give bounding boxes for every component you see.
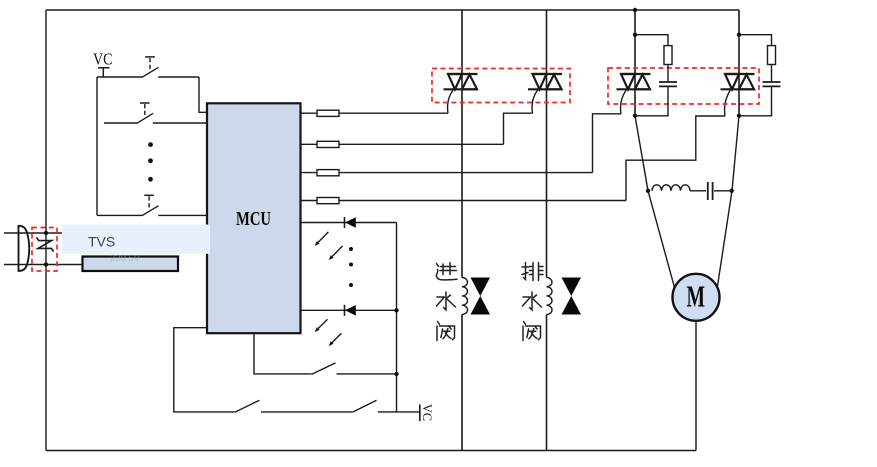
triac Q1 [444, 74, 478, 89]
wire: triac Q1 main line upper [461, 10, 463, 278]
wire: Q4 slant to motor [718, 116, 740, 286]
wire: S1 to MCU step [199, 77, 207, 112]
wire: MCU bottom to S4 [254, 333, 312, 374]
wire: Q3 slant to motor [635, 116, 675, 288]
arrow: matrix arrow 3 [315, 319, 328, 332]
valve symbol V2 (drain) [562, 278, 582, 315]
wire: key rail vertical [96, 77, 98, 215]
inductor L1 (inlet valve coil) [462, 278, 468, 315]
switch S1 (key 1, push-button) [97, 57, 199, 77]
power module U2 (220V-5V) [83, 257, 179, 272]
diode D3 row [301, 305, 397, 316]
wire: Q2 gate [532, 90, 538, 114]
wire: left border [45, 10, 47, 451]
snubber capacitor C2 [739, 82, 781, 116]
wire: valve 2 line lower [546, 315, 548, 451]
node: TVS bottom junction [44, 262, 48, 266]
node: S4 bus junction [394, 372, 398, 376]
highlight box: TVS (red dashed) [32, 228, 57, 272]
diode D2 row [301, 217, 397, 228]
MCU U1 [207, 103, 301, 333]
wire: triac Q2 main line upper [546, 10, 548, 278]
switch S6 [352, 400, 419, 412]
label: 排水阀 [522, 263, 543, 281]
wire: Q1 gate [448, 90, 454, 114]
highlight box: triacs Q3 Q4 (red dashed) [608, 68, 759, 104]
label banner: TVS [62, 225, 210, 254]
triac Q2 [528, 74, 562, 89]
label: 进水阀 [436, 263, 457, 280]
wire: R4 staircase to Q4 gate [626, 116, 725, 201]
valve symbol V1 (inlet) [471, 278, 491, 315]
switch S2 (key 2, push-button) [104, 103, 207, 123]
triac Q3 [617, 74, 651, 89]
arrow: matrix arrow 4 [329, 333, 342, 346]
wire: bottom return rail [46, 450, 696, 452]
wire: C3 to right slant [714, 190, 732, 192]
wire: top AC rail [46, 9, 739, 11]
arrow: matrix arrow 2 [329, 246, 343, 260]
resistor R2 [301, 141, 504, 147]
wire: triac Q4 branch line [738, 10, 740, 116]
node: phase right junction [730, 189, 734, 193]
node: matrix ellipsis dots [349, 247, 353, 287]
node: key ellipsis dots [148, 142, 153, 182]
switch S5 [235, 400, 352, 412]
switch S4 [312, 363, 397, 374]
switch S3 (key n, push-button) [97, 195, 207, 215]
wire: L3 to C3 [690, 190, 706, 192]
node: TVS top junction [44, 231, 48, 235]
node: Q3 snubber bottom [633, 114, 637, 118]
TVS diode D1 [37, 237, 54, 251]
resistor R3 [301, 170, 593, 176]
svg-text:MCU: MCU [236, 208, 271, 230]
wire: plug prong top [4, 232, 62, 234]
triac Q4 [721, 74, 755, 89]
node: Q4 snubber top [737, 33, 741, 37]
snubber resistor R5 [635, 35, 672, 82]
inductor L2 (drain valve coil) [547, 278, 553, 315]
node: Q3 snubber top [633, 33, 637, 37]
node: Q3 top rail junction [633, 8, 637, 12]
node: phase left junction [646, 189, 650, 193]
wire: plug prong bottom [4, 264, 83, 266]
wire: MCU left to bottom row [174, 328, 235, 412]
resistor R4 [301, 198, 627, 204]
snubber capacitor C1 [635, 82, 677, 116]
resistor R1 [301, 110, 449, 116]
svg-text:M: M [687, 279, 706, 314]
wire: triac Q3 branch line [634, 10, 636, 116]
svg-text:220 5V: 220 5V [110, 253, 141, 264]
wire: valve 1 line lower [461, 315, 463, 451]
wire: R3 step to Q3 gate [593, 114, 622, 173]
wire: Q4 gate [725, 90, 731, 116]
terminal: VC bottom bar [419, 404, 421, 421]
arrow: matrix arrow 1 [315, 232, 329, 246]
wire: Q3 gate [621, 90, 627, 114]
svg-text:VC: VC [420, 404, 435, 421]
highlight box: triacs Q1 Q2 (red dashed) [432, 69, 570, 103]
terminal: VC bar [98, 68, 110, 77]
node: D3 bus junction [394, 308, 398, 312]
motor M1 [673, 274, 720, 321]
wire: motor to bottom rail [695, 321, 697, 451]
inductor L3 (phase) [652, 185, 690, 191]
wire: matrix vertical bus [396, 223, 398, 412]
svg-text:TVS: TVS [88, 234, 115, 250]
plug J1 (AC input) [19, 226, 30, 271]
svg-text:VC: VC [93, 50, 113, 69]
wire: R2 step to Q2 gate [504, 113, 533, 144]
snubber resistor R6 [739, 35, 776, 82]
node: Q4 snubber bottom [737, 114, 741, 118]
capacitor C3 (phase) [708, 182, 713, 200]
